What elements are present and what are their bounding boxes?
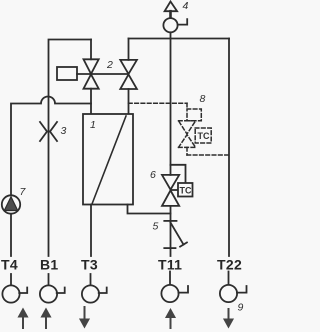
svg-text:5: 5 [153, 221, 159, 233]
svg-text:8: 8 [200, 93, 206, 105]
svg-text:9: 9 [238, 302, 244, 314]
svg-text:T11: T11 [158, 257, 182, 273]
svg-text:3: 3 [61, 125, 67, 137]
svg-text:B1: B1 [40, 257, 59, 273]
svg-text:1: 1 [90, 119, 96, 131]
svg-text:TC: TC [198, 131, 210, 141]
svg-text:2: 2 [106, 59, 113, 71]
svg-text:T22: T22 [217, 257, 242, 273]
svg-text:6: 6 [150, 169, 156, 181]
svg-text:T4: T4 [1, 257, 18, 273]
svg-text:4: 4 [183, 0, 189, 12]
svg-text:T3: T3 [81, 257, 98, 273]
svg-text:TC: TC [180, 186, 192, 196]
